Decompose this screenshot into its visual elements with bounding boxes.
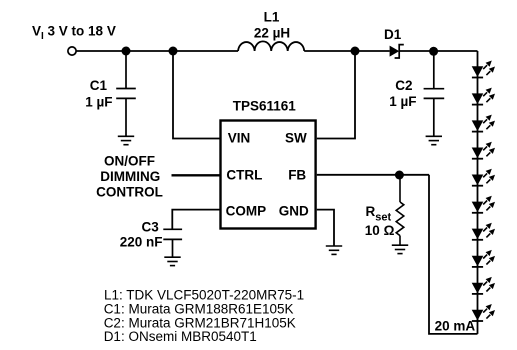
svg-text:22 µH: 22 µH (254, 26, 290, 41)
LED 1 (472, 61, 495, 78)
wire: LED string (477, 51, 479, 334)
svg-text:C1: C1 (90, 78, 108, 93)
capacitor C3 (163, 229, 182, 257)
inductor L1 (238, 41, 304, 51)
capacitor C2 (424, 51, 445, 136)
svg-text:COMP: COMP (226, 204, 267, 219)
junction node E (395, 171, 404, 180)
LED 2 (472, 88, 495, 105)
svg-text:C3: C3 (142, 219, 160, 234)
LED 9 (472, 277, 495, 294)
wire: COMP to C3 (172, 210, 219, 230)
wire: FB to return (317, 174, 429, 176)
resistor Rset (396, 175, 404, 245)
svg-text:CONTROL: CONTROL (96, 185, 163, 200)
wire: GND pin to ground (317, 210, 334, 246)
wire: D1 to LED string (400, 50, 478, 52)
LED 3 (472, 115, 495, 132)
svg-text:1 µF: 1 µF (85, 95, 112, 110)
svg-text:L1: L1 (264, 9, 280, 24)
svg-text:20 mA: 20 mA (435, 318, 476, 333)
svg-text:L1: TDK VLCF5020T-220MR75-1: L1: TDK VLCF5020T-220MR75-1 (104, 288, 304, 303)
svg-text:10 Ω: 10 Ω (365, 223, 395, 238)
svg-text:SW: SW (285, 130, 307, 145)
LED 7 (472, 223, 495, 240)
junction node A (122, 47, 131, 56)
wire: node B to VIN (173, 51, 220, 139)
ground (C1) (118, 136, 134, 144)
wire: input to L1 (76, 50, 238, 52)
svg-text:220 nF: 220 nF (120, 234, 163, 249)
svg-text:ON/OFF: ON/OFF (104, 153, 155, 168)
svg-text:Rset: Rset (366, 204, 392, 224)
LED 4 (472, 142, 495, 159)
wire: L1 to D1 (304, 50, 389, 52)
LED 6 (472, 196, 495, 213)
op IC U1 TPS61161 box (221, 121, 316, 229)
diode D1 (Schottky) (390, 45, 404, 58)
svg-text:VI 3 V to 18 V: VI 3 V to 18 V (32, 24, 116, 43)
ground (C2) (426, 136, 442, 144)
junction node D (429, 47, 438, 56)
capacitor C1 (116, 51, 136, 136)
junction node B (169, 47, 178, 56)
ground (GND pin) (326, 246, 342, 254)
svg-text:VIN: VIN (228, 130, 251, 145)
junction node C (351, 47, 360, 56)
LED 5 (472, 169, 495, 186)
input terminal (68, 47, 76, 55)
svg-text:1 µF: 1 µF (389, 94, 416, 109)
svg-text:C1: Murata GRM188R61E105K: C1: Murata GRM188R61E105K (104, 302, 294, 317)
svg-text:GND: GND (279, 204, 309, 219)
svg-text:CTRL: CTRL (226, 168, 262, 183)
svg-text:C2: C2 (395, 78, 412, 93)
wire: FB return to LED bottom (429, 175, 478, 334)
svg-text:DIMMING: DIMMING (100, 169, 160, 184)
svg-text:TPS61161: TPS61161 (233, 99, 297, 114)
LED 10 (472, 304, 495, 321)
wire: SW to node C (317, 51, 355, 139)
ground (C3) (164, 257, 180, 265)
LED 8 (472, 250, 495, 267)
svg-text:D1: ONsemi MBR0540T1: D1: ONsemi MBR0540T1 (104, 329, 257, 344)
wire: CTRL input (172, 174, 220, 176)
svg-text:D1: D1 (384, 27, 402, 42)
ground (Rset) (392, 245, 408, 253)
svg-text:FB: FB (288, 168, 306, 183)
